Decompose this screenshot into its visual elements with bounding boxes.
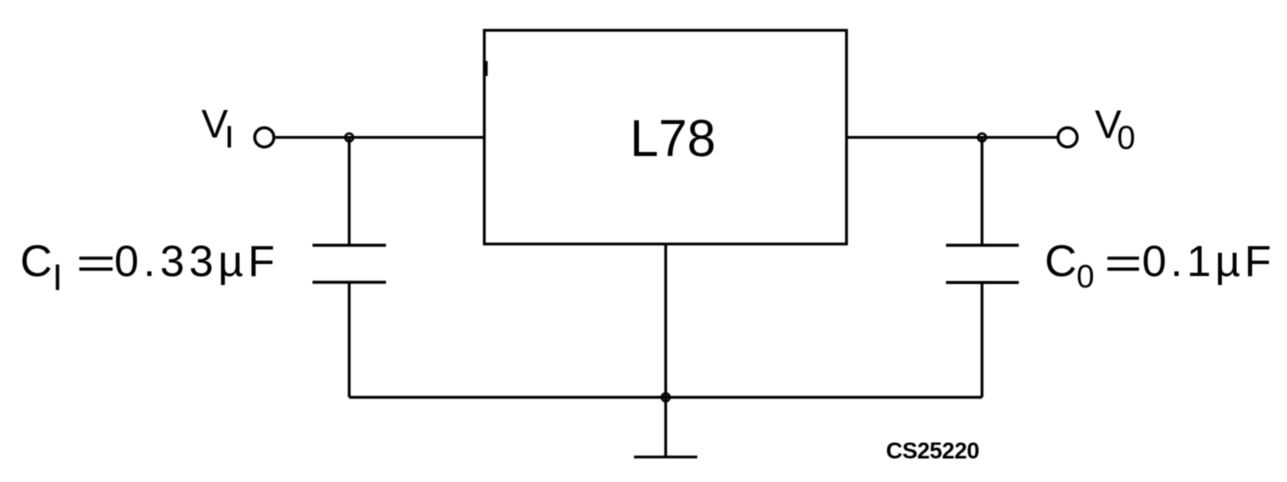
terminal VO xyxy=(1058,128,1077,147)
capacitor C1 xyxy=(313,245,387,282)
wire VI terminal to regulator input xyxy=(275,136,484,139)
svg-text:V: V xyxy=(201,102,228,146)
wire CI bottom plate to ground rail xyxy=(348,282,351,397)
svg-text:0.1µF: 0.1µF xyxy=(1142,237,1275,286)
wire regulator GND pin down xyxy=(664,244,667,397)
regulator U1 box xyxy=(484,30,846,244)
node output junction xyxy=(978,133,986,141)
wire rail to ground symbol xyxy=(664,397,667,457)
capacitor C0 xyxy=(946,245,1019,282)
svg-text:0: 0 xyxy=(1117,119,1135,156)
wire output node down to CO top plate xyxy=(981,137,984,244)
wire CO bottom plate to ground rail xyxy=(981,283,984,398)
svg-text:C: C xyxy=(20,237,52,286)
label VO xyxy=(1095,103,1136,156)
node ground junction xyxy=(662,393,670,401)
wire input node down to CI top plate xyxy=(348,137,351,244)
pin 1 tick on box left edge xyxy=(483,61,488,76)
node input junction xyxy=(345,133,353,141)
svg-text:0: 0 xyxy=(1077,259,1095,295)
terminal VI xyxy=(255,128,274,147)
svg-text:L78: L78 xyxy=(630,109,716,167)
label CI = 0.33uF xyxy=(20,237,279,290)
ground xyxy=(634,456,697,459)
svg-text:C: C xyxy=(1045,237,1077,286)
wire regulator output to VO terminal xyxy=(847,136,1058,139)
label CO = 0.1uF xyxy=(1045,237,1276,295)
ground rail wire xyxy=(349,396,982,399)
svg-text:CS25220: CS25220 xyxy=(886,438,979,464)
svg-text:0.33µF: 0.33µF xyxy=(114,237,279,286)
label VI xyxy=(201,102,229,147)
